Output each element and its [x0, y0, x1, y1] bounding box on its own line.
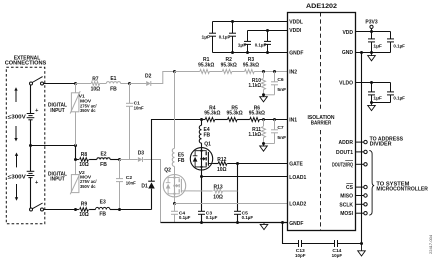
ground under VLDO [368, 103, 376, 111]
pin ADDR [339, 140, 354, 146]
svg-text:10nF: 10nF [134, 106, 144, 112]
junction C2 top [118, 158, 121, 161]
pin IN1 [289, 118, 297, 124]
svg-text:CONNECTIONS: CONNECTIONS [5, 60, 47, 66]
svg-text:MOSI: MOSI [340, 211, 353, 217]
svg-text:10Ω: 10Ω [213, 195, 223, 201]
isolation barrier label [308, 115, 335, 127]
svg-text:GATE: GATE [289, 162, 303, 168]
junction VLDO 1uF [370, 81, 373, 84]
capacitor C-VDDI-0.1uF label [255, 42, 267, 48]
wire VDD pin [356, 31, 391, 33]
junction C1 top [128, 82, 131, 85]
svg-text:0.1µF: 0.1µF [393, 44, 405, 50]
resistor R2 [222, 70, 232, 74]
resistor R10 [262, 72, 266, 95]
resistor R9 labels [79, 202, 89, 219]
svg-text:R7: R7 [92, 76, 99, 82]
junction R10 bottom [262, 93, 265, 96]
wire R13 to GATE net [223, 190, 238, 192]
junction V2 top [74, 158, 77, 161]
svg-text:1µF: 1µF [202, 34, 211, 40]
capacitor C5 [234, 211, 241, 222]
junction R11 top [262, 118, 265, 121]
svg-text:10pF: 10pF [332, 253, 343, 259]
wire C13 to C14 [302, 243, 335, 245]
junction C6 top [273, 70, 276, 73]
wire IN2 node to E5 [174, 72, 176, 149]
diode D3 label [138, 150, 145, 156]
transistor Q2 label [164, 168, 171, 174]
svg-text:1.1kΩ: 1.1kΩ [249, 132, 262, 138]
varistor V1 [70, 84, 80, 146]
wire LOAD1 to C3 [201, 177, 203, 212]
svg-text:5nF: 5nF [277, 87, 286, 93]
junction LOAD2 node [173, 202, 176, 205]
figure number [428, 234, 433, 254]
capacitor C-VLDO-0.1uF [387, 83, 394, 103]
terminal ADDR [364, 140, 367, 143]
capacitor C-VDDL-1uF label [202, 34, 211, 40]
svg-text:GNDF: GNDF [289, 50, 303, 56]
wire IN2 row [175, 71, 288, 73]
svg-text:DOUT2/IRQ: DOUT2/IRQ [332, 162, 353, 168]
pin GNDF bottom [289, 221, 303, 227]
pin LOAD2 [289, 202, 306, 208]
resistor R13 labels [213, 185, 223, 201]
wire LOAD1 [202, 176, 288, 178]
capacitor C6 labels [277, 77, 286, 93]
svg-text:LOAD1: LOAD1 [289, 175, 306, 181]
battery V-bot annotation arrow down [15, 184, 18, 201]
wire LOAD2 [175, 203, 288, 205]
wire R8 row [76, 159, 120, 161]
wire C1 node to D2 [130, 83, 147, 85]
resistor R4 [205, 118, 215, 122]
terminal SCLK [364, 203, 367, 206]
svg-text:DIVIDER: DIVIDER [370, 142, 392, 148]
transistor Q1 label [204, 142, 211, 148]
pin VLDO [339, 80, 353, 86]
wire VLDO cap bottoms [372, 102, 391, 104]
varistor V2 [70, 160, 80, 195]
svg-text:1µF: 1µF [373, 96, 382, 102]
terminal P3V3 [370, 25, 373, 31]
pin CS [346, 184, 354, 192]
digital input label top [48, 103, 68, 114]
ferrite bead E2 labels [100, 152, 107, 169]
wire GND pin [356, 52, 391, 54]
resistor R7 labels [91, 76, 101, 92]
svg-text:10Ω: 10Ω [79, 162, 89, 168]
diode D3 [138, 157, 143, 162]
wire VDDI rail [248, 30, 288, 32]
svg-text:95.3kΩ: 95.3kΩ [227, 111, 243, 117]
pin DOUT1 [336, 150, 353, 156]
capacitor C2 labels [126, 175, 136, 186]
wire GNDF rail [161, 222, 288, 224]
wire R9 row [76, 209, 152, 211]
terminal CS [364, 185, 367, 188]
resistor R1 [200, 70, 210, 74]
svg-text:C2: C2 [126, 175, 133, 181]
svg-text:MISO: MISO [340, 194, 353, 200]
pin GND [342, 50, 354, 56]
capacitor C14 [335, 240, 338, 247]
capacitor C-VLDO-1uF label [373, 96, 382, 102]
IC title ADE1202 [306, 3, 337, 10]
svg-text:R13: R13 [214, 185, 223, 191]
ground under R10 [260, 95, 268, 102]
svg-text:0.1µF: 0.1µF [393, 96, 405, 102]
ground under R11 [260, 144, 268, 152]
terminal DOUT2 [364, 163, 367, 166]
ferrite bead E3 [96, 207, 110, 209]
diode D1 label [141, 184, 148, 190]
resistor R11 [262, 120, 266, 144]
capacitor C-VDDI-0.1uF [264, 31, 271, 53]
resistor R10 labels [249, 78, 262, 89]
diode D2 [146, 81, 151, 86]
ferrite bead E4 [199, 120, 201, 148]
wire Q2 source to LOAD2 [174, 197, 176, 204]
capacitor C-VDD-0.1uF [387, 32, 394, 53]
svg-text:FB: FB [100, 162, 107, 168]
svg-text:22417-004: 22417-004 [428, 234, 433, 254]
resistor R11 labels [249, 127, 262, 138]
svg-text:DOUT1: DOUT1 [336, 150, 353, 156]
svg-text:95.3kΩ: 95.3kΩ [249, 111, 265, 117]
ferrite bead E4 labels [204, 127, 211, 138]
label to address divider [370, 136, 404, 147]
capacitor C-VDDL-0.1uF [229, 22, 236, 53]
svg-text:R8: R8 [81, 152, 88, 158]
junction VDDI 0.1uF top [266, 29, 269, 32]
capacitor C3 [198, 211, 205, 222]
wire common rail [31, 145, 76, 147]
resistor R8 [80, 158, 89, 162]
wire rail corner to R8 [75, 146, 77, 160]
resistor R12 [218, 162, 227, 166]
junction battery rail [29, 144, 32, 147]
wire Q2 gate to R13 [186, 190, 212, 192]
svg-text:0.1µF: 0.1µF [179, 215, 191, 221]
capacitor C-VDD-1uF label [373, 44, 382, 50]
svg-text:P3V3: P3V3 [365, 19, 377, 25]
pin SCLK [339, 202, 353, 208]
junction rail V1 bottom [74, 144, 77, 147]
junction R10 top [262, 70, 265, 73]
label to system microcontroller [376, 182, 428, 193]
battery V-top annotation arrow up [14, 87, 17, 102]
junction GNDF loop [281, 221, 284, 224]
junction VLDO gnd [370, 101, 373, 104]
capacitor C-VDDI-1uF label [238, 42, 247, 48]
svg-text:R9: R9 [81, 202, 88, 208]
svg-text:1.1kΩ: 1.1kΩ [249, 83, 262, 89]
wire VLDO pin [356, 82, 391, 84]
transistor Q1 [190, 148, 213, 170]
svg-text:IN2: IN2 [289, 69, 297, 75]
svg-text:BARRIER: BARRIER [311, 121, 332, 127]
wire GNDF loop down [283, 223, 299, 244]
wire GATE to C5 [237, 164, 239, 212]
capacitor C7 [264, 120, 279, 144]
pin VDDI [289, 28, 302, 34]
pin IN2 [289, 69, 297, 75]
capacitor C13 labels [295, 248, 306, 259]
svg-text:Q2: Q2 [164, 168, 171, 174]
svg-text:GNDF: GNDF [289, 221, 303, 227]
capacitor C3 labels [206, 210, 218, 221]
wire ADDR stub [356, 141, 364, 143]
svg-text:FB: FB [99, 212, 106, 218]
brace to microcontroller [369, 150, 374, 215]
junction C3 rail [200, 221, 203, 224]
digital input label bottom [48, 171, 68, 182]
capacitor C4 labels [179, 210, 191, 221]
wire IN1 row [202, 119, 288, 121]
svg-text:IN1: IN1 [289, 118, 297, 124]
ferrite bead E5 labels [178, 153, 185, 164]
svg-text:95.3kΩ: 95.3kΩ [221, 63, 237, 69]
resistor R9 [80, 208, 89, 212]
resistor R7 [91, 82, 99, 86]
wire MOSI stub [356, 212, 364, 214]
svg-text:VDDL: VDDL [289, 20, 303, 26]
resistor R1 labels [198, 57, 214, 68]
pin GATE [289, 162, 303, 168]
diode D1 [148, 181, 155, 188]
wire switch S1 to node V1 [44, 83, 76, 85]
wire C2 node to D3 (gray) [120, 159, 138, 161]
resistor R4 labels [204, 105, 220, 116]
wire R12 to GATE pin [227, 163, 287, 165]
terminal MOSI [364, 212, 367, 215]
resistor R5 [228, 118, 238, 122]
svg-text:10nF: 10nF [126, 180, 136, 186]
ferrite bead E5 [172, 148, 174, 174]
capacitor C-VDDL-1uF [209, 22, 216, 53]
wire GND down riser [361, 53, 363, 244]
capacitor C7 labels [277, 125, 286, 141]
wire SCLK stub [356, 203, 364, 205]
svg-text:350V dc: 350V dc [80, 108, 96, 114]
wire Q1 source to LOAD1 [201, 170, 203, 177]
isolation barrier dashed line [320, 12, 322, 231]
svg-text:350V dc: 350V dc [80, 184, 96, 190]
external connections label [5, 55, 47, 66]
wire return riser [151, 189, 153, 210]
battery V-top annotation arrow down [14, 126, 17, 141]
junction node V2 bottom [74, 208, 77, 211]
label <=300V bottom [8, 174, 27, 180]
wire D2 to IN2 riser [151, 72, 175, 84]
svg-text:V1: V1 [79, 93, 85, 99]
terminal DOUT1 [364, 150, 367, 153]
junction bottom gnd [360, 242, 363, 245]
svg-text:ADE1202: ADE1202 [306, 3, 337, 10]
resistor R3 labels [243, 57, 259, 68]
capacitor C-VLDO-0.1uF label [393, 96, 405, 102]
pin VDDL [289, 20, 303, 26]
battery B2 [27, 146, 39, 209]
capacitor C13 [299, 240, 302, 247]
ferrite bead E1 labels [110, 76, 117, 92]
svg-text:95.3kΩ: 95.3kΩ [243, 63, 259, 69]
svg-text:5nF: 5nF [277, 135, 286, 141]
pin LOAD1 [289, 175, 306, 181]
svg-text:10Ω: 10Ω [91, 86, 101, 92]
svg-text:INPUT: INPUT [50, 108, 65, 114]
svg-text:1µF: 1µF [373, 44, 382, 50]
svg-text:10Ω: 10Ω [217, 167, 227, 173]
resistor R2 labels [221, 57, 237, 68]
svg-text:0.1µF: 0.1µF [242, 215, 254, 221]
resistor R3 [245, 70, 255, 74]
label P3V3 [365, 19, 377, 25]
svg-text:D3: D3 [138, 150, 145, 156]
svg-text:VLDO: VLDO [339, 80, 353, 86]
capacitor C4 [171, 204, 178, 223]
wire C14 to gnd [338, 243, 362, 245]
svg-text:C7: C7 [277, 125, 284, 131]
resistor R13 [214, 189, 223, 193]
wire GNDF top rail [213, 52, 288, 54]
junction GND riser [360, 51, 363, 54]
svg-text:Q1: Q1 [204, 142, 211, 148]
capacitor C-VDD-1uF [368, 32, 375, 53]
wire VDDL rail [213, 21, 288, 23]
capacitor C1 [126, 84, 133, 160]
resistor R8 labels [79, 152, 89, 168]
capacitor C-VDDL-0.1uF label [219, 34, 231, 40]
svg-text:FB: FB [178, 158, 185, 164]
svg-text:0.1µF: 0.1µF [219, 34, 231, 40]
ferrite bead E2 [97, 158, 110, 160]
junction C7 top [273, 118, 276, 121]
pin DOUT2/IRQ [332, 161, 353, 169]
ferrite bead E3 labels [99, 200, 106, 218]
capacitor C14 labels [332, 248, 343, 259]
junction VDD 1uF [370, 30, 373, 33]
IC U1 ADE1202 outline [288, 13, 356, 231]
svg-text:E2: E2 [100, 152, 106, 158]
wire Q1 gate to R12 [213, 163, 218, 165]
wire MISO stub [356, 195, 364, 197]
pin GNDF top [289, 50, 303, 56]
capacitor C-VDD-0.1uF label [393, 44, 405, 50]
varistor V1 label [79, 93, 97, 114]
resistor R5 labels [227, 105, 243, 116]
wire switch S2 to node V2 [44, 209, 76, 211]
svg-text:D2: D2 [145, 74, 152, 80]
svg-text:LOAD2: LOAD2 [289, 202, 306, 208]
svg-text:MICROCONTROLLER: MICROCONTROLLER [376, 187, 428, 193]
capacitor C1 labels [134, 101, 144, 112]
svg-text:D1: D1 [141, 184, 148, 190]
terminal MISO [364, 194, 367, 197]
junction GND 1uF [370, 51, 373, 54]
svg-text:E1: E1 [110, 76, 116, 82]
svg-text:VDDI: VDDI [289, 28, 302, 34]
svg-text:95.3kΩ: 95.3kΩ [198, 63, 214, 69]
svg-text:FB: FB [110, 86, 117, 92]
capacitor C5 labels [242, 210, 254, 221]
battery V-bot annotation arrow up [15, 153, 18, 168]
svg-text:≤300V: ≤300V [8, 174, 27, 180]
junction GATE node [236, 162, 239, 165]
junction R11 bottom [262, 142, 265, 145]
svg-text:CS: CS [346, 185, 354, 191]
junction VDDI 1uF bottom [246, 51, 249, 54]
junction VDDL 0.1uF top [231, 20, 234, 23]
svg-text:R12: R12 [217, 157, 226, 163]
capacitor C-VDDI-1uF [244, 31, 251, 53]
svg-text:SCLK: SCLK [339, 202, 353, 208]
ground under GND [368, 53, 376, 61]
svg-text:≤300V: ≤300V [8, 114, 27, 120]
wire D1 to IN1 corner [152, 120, 202, 182]
switch S2 [30, 203, 44, 211]
svg-text:E3: E3 [100, 200, 106, 206]
junction LOAD1 node [200, 175, 203, 178]
pin VDD [342, 30, 353, 36]
resistor R6 labels [249, 105, 265, 116]
resistor R6 [250, 118, 260, 122]
svg-text:95.3kΩ: 95.3kΩ [204, 111, 220, 117]
capacitor C6 [264, 72, 279, 95]
svg-text:0.1µF: 0.1µF [255, 42, 267, 48]
ground bottom right [358, 244, 366, 257]
wire V1 node to C1 node [76, 83, 130, 85]
svg-text:1µF: 1µF [238, 42, 247, 48]
junction E4 node [200, 118, 203, 121]
junction C2 bottom [118, 208, 121, 211]
wire DOUT2 stub [356, 163, 364, 165]
junction VDDL 0.1uF bottom [231, 51, 234, 54]
svg-text:10Ω: 10Ω [79, 212, 89, 218]
pin MOSI [340, 211, 353, 217]
junction node V1 top [74, 82, 77, 85]
junction IN2 rail E5 branch [173, 70, 176, 73]
external connections dashed box [6, 67, 45, 224]
transistor Q2 [163, 175, 186, 197]
svg-text:C6: C6 [277, 77, 284, 83]
diode D2 label [145, 74, 152, 80]
svg-text:FB: FB [204, 132, 211, 138]
wire D3 to gnd rail [143, 160, 160, 223]
svg-text:GND: GND [342, 50, 354, 56]
junction C5 rail [236, 221, 239, 224]
ferrite bead E1 [106, 82, 120, 84]
capacitor C2 [116, 160, 123, 210]
pin MISO [340, 194, 353, 200]
battery B1 [27, 85, 39, 146]
wire DOUT1 stub [356, 151, 364, 153]
varistor V2 label [79, 170, 97, 190]
wire CS stub [356, 186, 364, 188]
svg-text:10pF: 10pF [295, 253, 306, 259]
svg-text:ADDR: ADDR [339, 140, 354, 146]
svg-text:VDD: VDD [342, 30, 353, 36]
svg-text:0.1µF: 0.1µF [206, 215, 218, 221]
resistor R12 labels [217, 157, 227, 173]
capacitor C-VLDO-1uF [368, 83, 375, 103]
svg-text:INPUT: INPUT [50, 177, 65, 183]
switch S1 [30, 77, 44, 85]
junction VDDI 0.1uF bottom [266, 51, 269, 54]
